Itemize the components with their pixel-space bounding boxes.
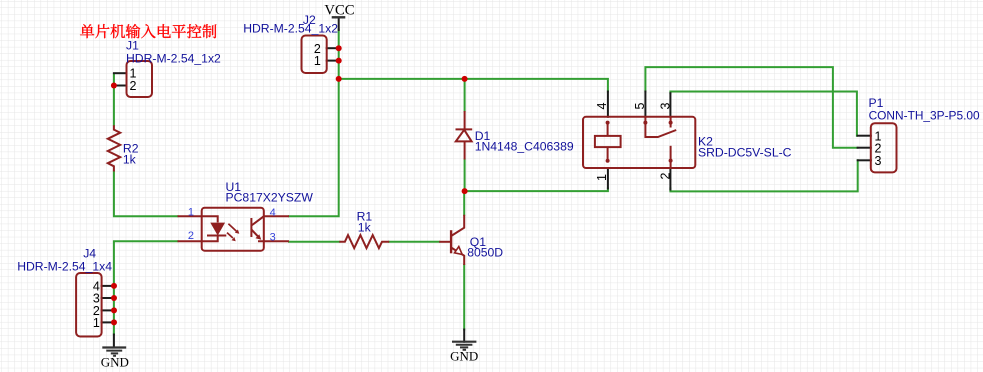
svg-text:GND: GND [450,349,478,364]
svg-text:J1: J1 [126,39,139,53]
svg-text:8050D: 8050D [467,246,503,260]
svg-text:1: 1 [93,316,100,330]
svg-text:3: 3 [270,231,276,243]
svg-text:1N4148_C406389: 1N4148_C406389 [475,140,574,154]
svg-text:4: 4 [270,207,276,219]
svg-text:4: 4 [595,102,609,109]
svg-text:HDR-M-2.54_1x2: HDR-M-2.54_1x2 [243,21,338,35]
svg-text:1: 1 [595,174,609,181]
svg-text:3: 3 [875,154,882,168]
svg-text:2: 2 [658,172,672,179]
svg-text:PC817X2YSZW: PC817X2YSZW [226,191,314,205]
svg-text:1: 1 [314,54,321,68]
svg-text:J4: J4 [83,247,96,261]
svg-text:HDR-M-2.54_1x2: HDR-M-2.54_1x2 [126,52,221,66]
svg-text:HDR-M-2.54_1x4: HDR-M-2.54_1x4 [17,260,112,274]
svg-text:1: 1 [188,207,194,219]
svg-text:SRD-DC5V-SL-C: SRD-DC5V-SL-C [698,146,792,160]
svg-text:2: 2 [130,79,137,93]
svg-text:3: 3 [658,102,672,109]
svg-text:1k: 1k [123,152,137,166]
svg-text:GND: GND [101,355,129,370]
svg-text:2: 2 [188,230,194,242]
svg-text:5: 5 [633,102,647,109]
svg-text:1k: 1k [358,220,372,234]
svg-text:CONN-TH_3P-P5.00: CONN-TH_3P-P5.00 [869,108,980,122]
